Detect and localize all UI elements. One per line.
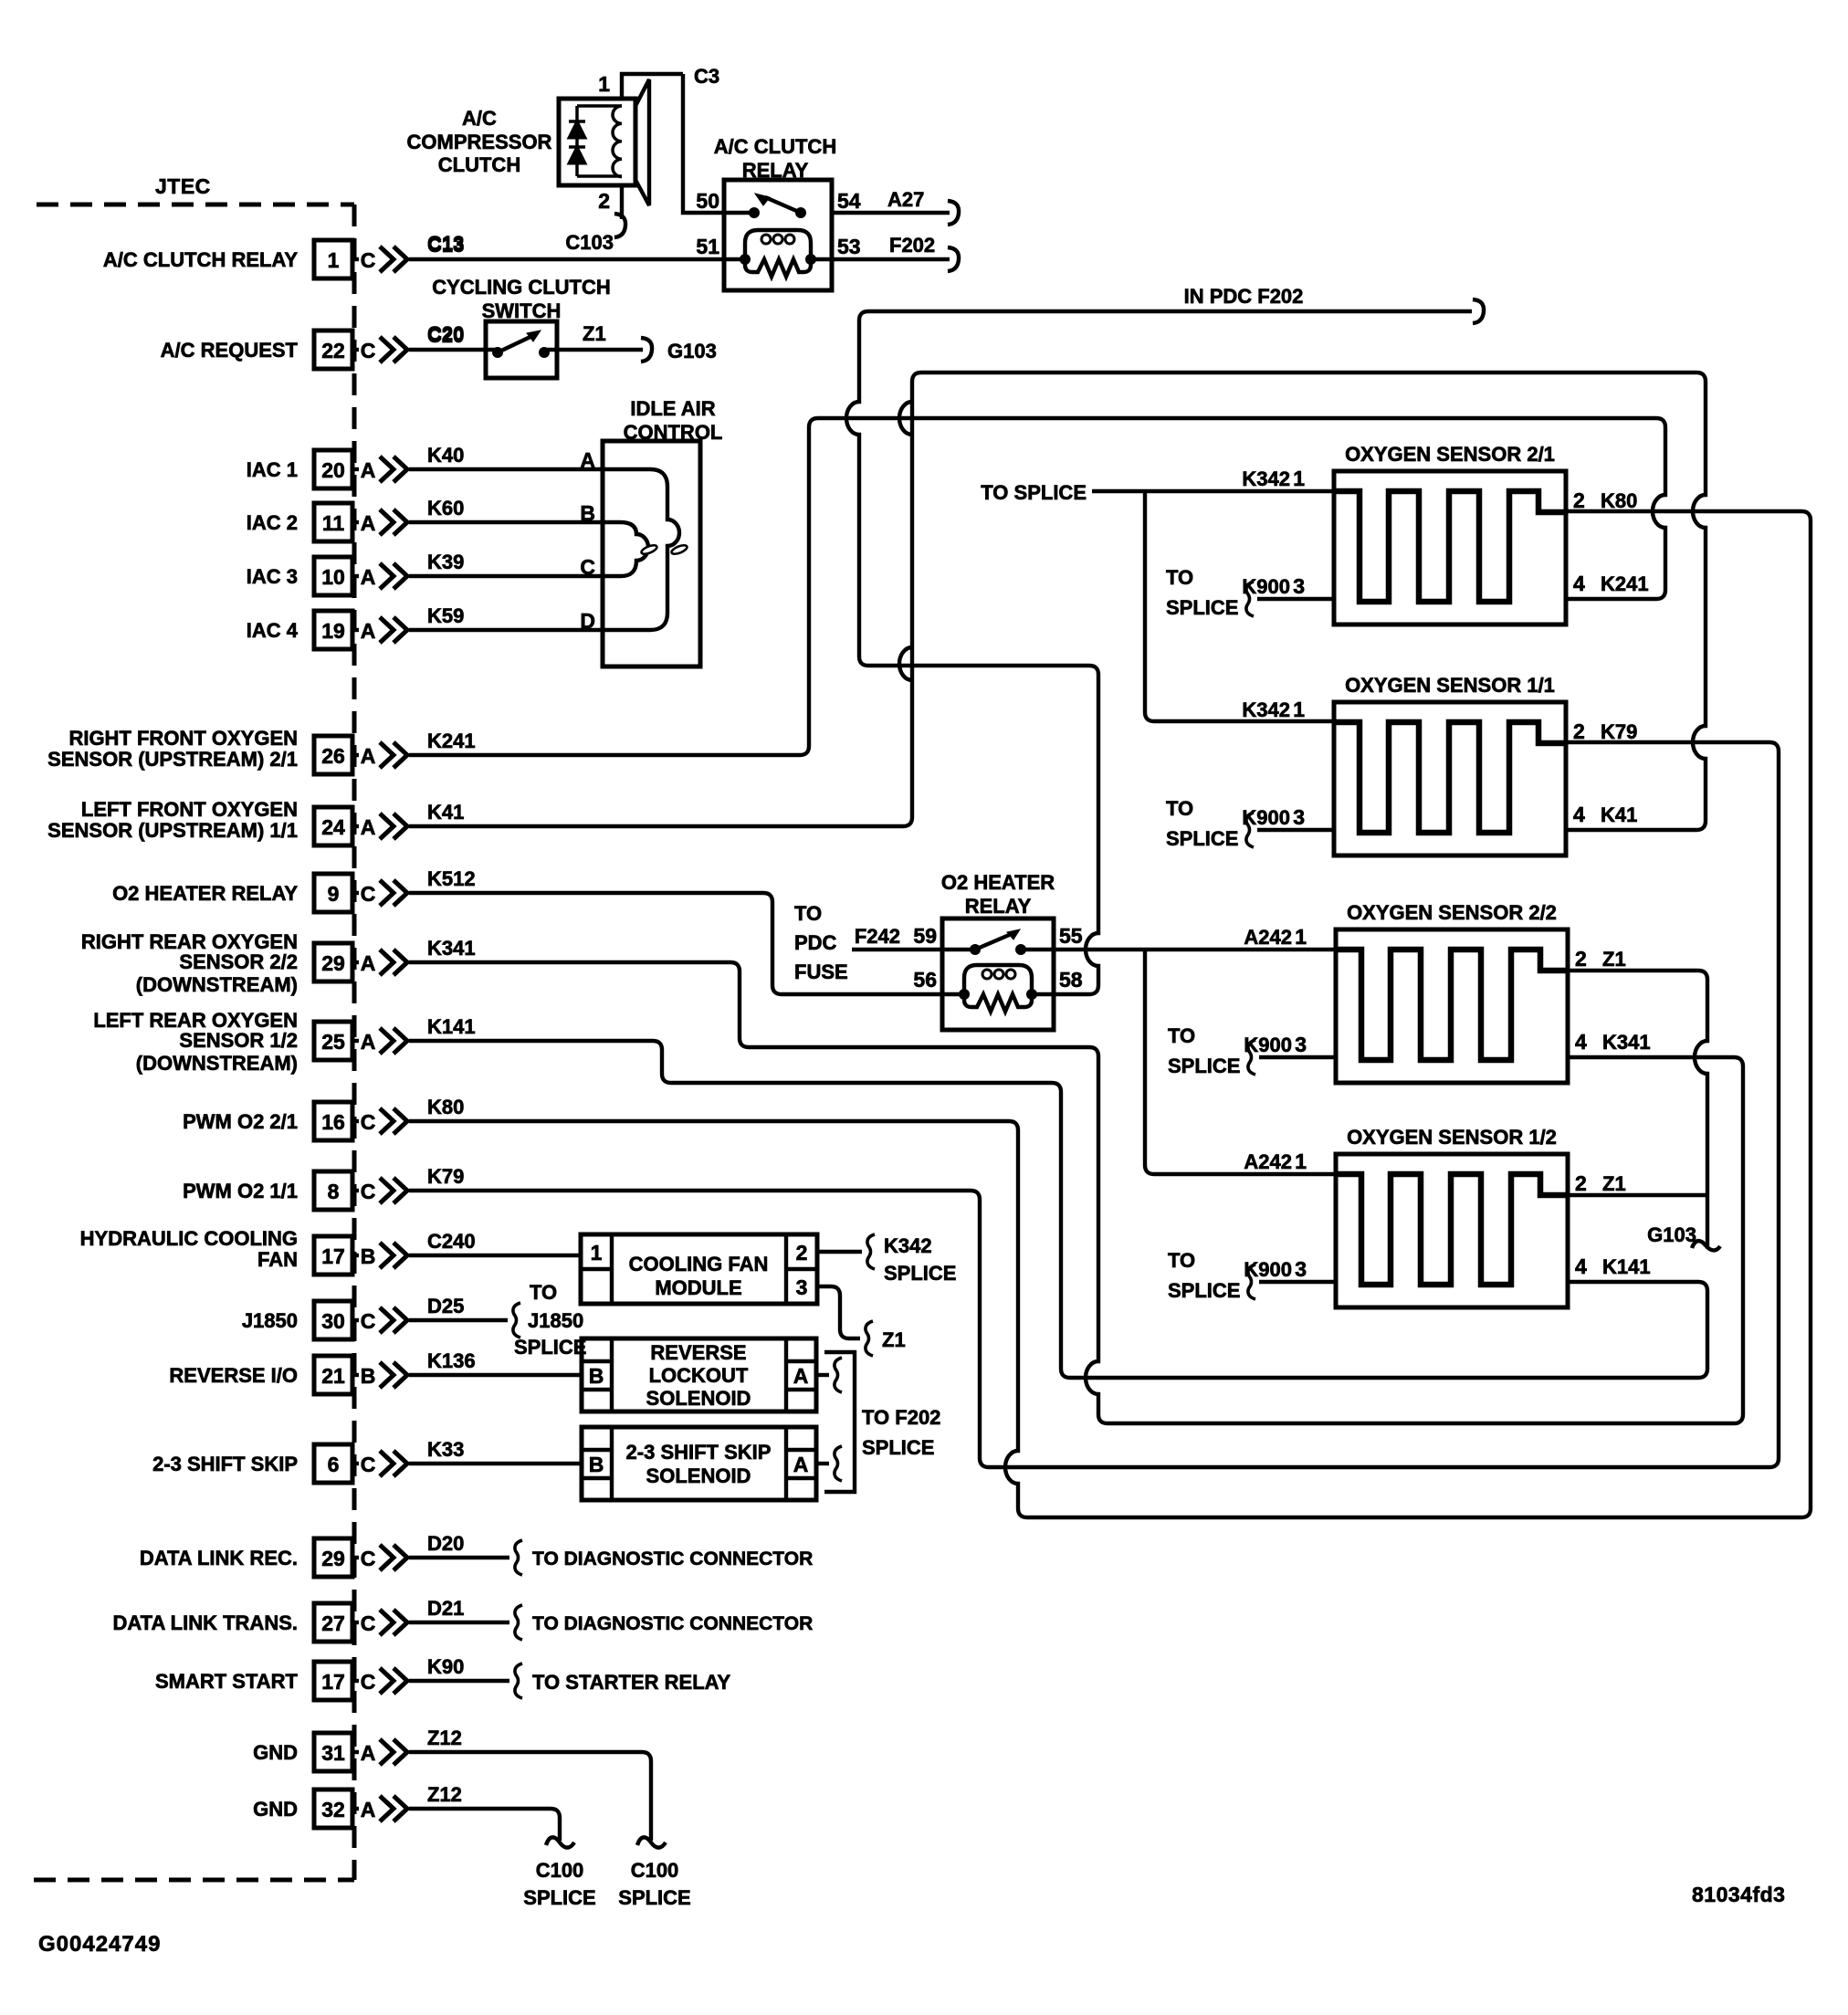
svg-text:O2 HEATER: O2 HEATER xyxy=(941,871,1055,894)
svg-text:24: 24 xyxy=(321,815,345,839)
svg-text:2: 2 xyxy=(1573,719,1585,743)
svg-text:PDC: PDC xyxy=(794,931,837,954)
svg-text:PWM O2 2/1: PWM O2 2/1 xyxy=(183,1110,298,1133)
svg-text:Z12: Z12 xyxy=(427,1726,462,1749)
svg-text:2: 2 xyxy=(598,189,610,213)
svg-text:PWM O2 1/1: PWM O2 1/1 xyxy=(183,1180,298,1202)
relay coil and resistor network xyxy=(745,230,811,259)
JTEC pin 6 box xyxy=(314,1444,352,1483)
wire C3 down to relay pin 50 xyxy=(683,74,754,213)
O2 heater relay box xyxy=(942,918,1054,1030)
O2 relay coil and resistor network xyxy=(964,965,1032,994)
svg-text:IAC 2: IAC 2 xyxy=(247,511,298,534)
svg-text:SPLICE: SPLICE xyxy=(514,1336,586,1359)
wire K79 net JTEC pin8 to oxygen sensor 1/1 pin 2 xyxy=(409,742,1779,1467)
svg-text:6: 6 xyxy=(328,1453,340,1476)
wire Z1 branch sensor 1/2 pin 2 xyxy=(1568,1193,1707,1197)
pin 27 letter C xyxy=(352,1621,359,1624)
pin 29 letter A xyxy=(352,960,359,964)
JTEC pin 26 box xyxy=(314,736,352,774)
pin 19 chevron xyxy=(380,617,394,643)
wire K141 net JTEC pin25 to oxygen sensor 1/2 pin 4 xyxy=(409,1041,1707,1378)
svg-text:C3: C3 xyxy=(694,65,719,88)
svg-text:K59: K59 xyxy=(427,604,464,627)
wire K136 JTEC pin21 to reverse solenoid B xyxy=(409,1373,582,1377)
svg-text:COMPRESSOR: COMPRESSOR xyxy=(407,131,552,153)
svg-text:20: 20 xyxy=(321,458,345,482)
svg-text:IAC 1: IAC 1 xyxy=(247,458,298,481)
wire K59 JTEC to IAC D xyxy=(409,628,603,632)
svg-text:K341: K341 xyxy=(427,937,476,960)
svg-text:1: 1 xyxy=(591,1241,603,1265)
wire K241 net JTEC pin26 to oxygen sensor 2/1 pin 4 xyxy=(409,418,1665,755)
wire C13 from JTEC pin1 to relay 51 xyxy=(409,257,745,261)
oxygen sensor 2/2 heater element xyxy=(1336,950,1568,1060)
svg-text:TO DIAGNOSTIC CONNECTOR: TO DIAGNOSTIC CONNECTOR xyxy=(532,1613,813,1634)
wire pin1 to C3 corner xyxy=(622,74,683,99)
pin 32 letter A xyxy=(352,1807,359,1810)
wire Z12 GND pin32 to C100 splice xyxy=(409,1809,560,1841)
pin 20 chevron xyxy=(380,457,394,482)
wire Z1 to G103 xyxy=(544,348,643,352)
compressor clutch coil xyxy=(577,104,622,108)
svg-text:1: 1 xyxy=(598,72,610,96)
svg-text:2: 2 xyxy=(1575,1171,1587,1195)
idle air control box xyxy=(603,441,700,666)
svg-text:K80: K80 xyxy=(427,1096,464,1118)
oxygen sensor 2/1 box xyxy=(1334,471,1566,624)
svg-text:Z1: Z1 xyxy=(1602,948,1626,971)
svg-text:59: 59 xyxy=(913,924,937,948)
oxygen sensor 2/1 heater element xyxy=(1334,491,1566,602)
svg-text:K79: K79 xyxy=(1601,720,1637,743)
wire K60 JTEC to IAC B xyxy=(409,520,603,524)
svg-text:27: 27 xyxy=(321,1611,345,1635)
svg-text:G103: G103 xyxy=(667,340,717,362)
svg-text:RELAY: RELAY xyxy=(965,895,1032,918)
svg-text:OXYGEN SENSOR 2/1: OXYGEN SENSOR 2/1 xyxy=(1345,443,1555,466)
pin 19 letter A xyxy=(352,628,359,632)
svg-text:A242: A242 xyxy=(1244,926,1292,949)
svg-text:OXYGEN SENSOR 2/2: OXYGEN SENSOR 2/2 xyxy=(1347,901,1557,924)
sensor 2/1 K900 to splice wire xyxy=(1257,597,1334,601)
svg-text:21: 21 xyxy=(321,1364,345,1388)
svg-text:K241: K241 xyxy=(1601,572,1649,595)
svg-text:29: 29 xyxy=(321,1547,345,1570)
IAC coil ellipse left xyxy=(640,543,657,555)
svg-text:IAC 3: IAC 3 xyxy=(247,565,298,588)
svg-text:29: 29 xyxy=(321,951,345,975)
svg-text:TO: TO xyxy=(1166,566,1193,589)
ground G103 curl xyxy=(1692,1241,1720,1250)
svg-text:A: A xyxy=(361,511,376,535)
svg-text:K33: K33 xyxy=(427,1438,464,1461)
svg-text:A/C: A/C xyxy=(462,107,497,130)
svg-text:K342: K342 xyxy=(884,1234,932,1257)
connector G103 curl xyxy=(641,338,652,362)
svg-text:C100: C100 xyxy=(536,1859,584,1882)
pin 11 letter A xyxy=(352,520,359,524)
pin 10 letter A xyxy=(352,574,359,578)
svg-text:GND: GND xyxy=(253,1741,298,1764)
wire cooling fan pin 2 to K342 splice xyxy=(817,1250,862,1254)
svg-text:C: C xyxy=(361,248,376,272)
svg-text:TO: TO xyxy=(1168,1024,1195,1047)
JTEC pin 29 box xyxy=(314,1538,352,1577)
svg-text:C: C xyxy=(361,1309,376,1333)
svg-text:IN PDC F202: IN PDC F202 xyxy=(1184,285,1304,308)
JTEC pin 32 box xyxy=(314,1789,352,1828)
oxygen sensor 1/1 heater element xyxy=(1334,722,1566,833)
svg-text:A27: A27 xyxy=(887,188,924,211)
svg-text:3: 3 xyxy=(1295,1033,1307,1056)
svg-text:1: 1 xyxy=(1295,1149,1307,1173)
svg-text:D20: D20 xyxy=(427,1532,464,1555)
JTEC pin 29 box xyxy=(314,943,352,981)
wire reverse solenoid A to F202 splice xyxy=(816,1373,829,1377)
svg-text:SOLENOID: SOLENOID xyxy=(646,1464,751,1487)
wire K342 branch down to sensor 1/1 pin 1 xyxy=(1145,491,1334,721)
svg-text:SPLICE: SPLICE xyxy=(523,1886,595,1909)
svg-text:17: 17 xyxy=(321,1670,345,1694)
svg-text:A/C CLUTCH: A/C CLUTCH xyxy=(714,135,836,158)
pin 25 letter A xyxy=(352,1039,359,1043)
pin 24 letter A xyxy=(352,824,359,828)
wire K80 net JTEC pin16 to oxygen sensor 2/1 pin 2 xyxy=(409,511,1811,1517)
pin 8 chevron xyxy=(380,1178,394,1203)
O2 relay switch contacts xyxy=(970,944,981,955)
svg-text:A: A xyxy=(361,1741,376,1765)
svg-text:SENSOR (UPSTREAM) 1/1: SENSOR (UPSTREAM) 1/1 xyxy=(47,819,298,842)
svg-text:C: C xyxy=(361,1547,376,1570)
svg-text:TO SPLICE: TO SPLICE xyxy=(981,481,1087,504)
svg-text:10: 10 xyxy=(321,565,345,589)
svg-text:C20: C20 xyxy=(427,324,464,347)
wire K90 to starter relay xyxy=(409,1679,509,1683)
pin 30 letter C xyxy=(352,1318,359,1322)
svg-text:B: B xyxy=(589,1364,604,1388)
svg-text:32: 32 xyxy=(321,1798,345,1821)
svg-text:TO: TO xyxy=(1168,1249,1195,1272)
svg-text:Z1: Z1 xyxy=(882,1328,906,1351)
svg-text:HYDRAULIC COOLING: HYDRAULIC COOLING xyxy=(80,1227,298,1250)
svg-text:G103: G103 xyxy=(1647,1223,1696,1246)
svg-text:SPLICE: SPLICE xyxy=(1168,1055,1240,1077)
svg-text:2: 2 xyxy=(1575,947,1587,971)
svg-text:C100: C100 xyxy=(631,1859,679,1882)
svg-text:19: 19 xyxy=(321,619,345,643)
pin 11 chevron xyxy=(380,509,394,535)
pin 20 letter A xyxy=(352,467,359,471)
pin 17 letter B xyxy=(352,1254,359,1257)
svg-text:GND: GND xyxy=(253,1798,298,1821)
svg-text:K40: K40 xyxy=(427,444,464,467)
wire K512 JTEC pin9 to relay pin 56 xyxy=(409,893,964,994)
svg-text:16: 16 xyxy=(321,1110,345,1134)
svg-text:56: 56 xyxy=(913,968,937,992)
pin 17 chevron xyxy=(380,1668,394,1694)
wire 2-3 solenoid A to F202 splice xyxy=(816,1462,829,1465)
svg-text:2-3 SHIFT SKIP: 2-3 SHIFT SKIP xyxy=(152,1453,298,1475)
pin 30 chevron xyxy=(380,1307,394,1333)
sensor 1/2 K900 to splice wire xyxy=(1259,1280,1336,1284)
JTEC pin 16 box xyxy=(314,1102,352,1140)
svg-text:SENSOR 2/2: SENSOR 2/2 xyxy=(179,950,298,973)
svg-text:3: 3 xyxy=(796,1275,808,1299)
wire A242 net O2 heater relay 55 to sensors 2/2 and 1/2 pin 1 xyxy=(1021,948,1336,951)
svg-text:A: A xyxy=(361,458,376,482)
pin 9 chevron xyxy=(380,880,394,906)
svg-text:54: 54 xyxy=(837,189,861,213)
connector F202 curl xyxy=(948,247,959,271)
switch blade xyxy=(498,335,534,352)
JTEC pin 20 box xyxy=(314,450,352,488)
wire K33 JTEC pin6 to 2-3 solenoid B xyxy=(409,1462,582,1465)
svg-text:1: 1 xyxy=(328,248,340,272)
A/C clutch relay box xyxy=(724,180,832,290)
svg-text:JTEC: JTEC xyxy=(155,174,211,198)
relay switch contacts xyxy=(749,207,760,218)
JTEC pin 8 box xyxy=(314,1171,352,1210)
pin 22 chevron xyxy=(380,337,394,362)
svg-text:DATA LINK REC.: DATA LINK REC. xyxy=(140,1547,298,1569)
JTEC pin 27 box xyxy=(314,1603,352,1642)
svg-text:A242: A242 xyxy=(1244,1150,1292,1173)
svg-text:C240: C240 xyxy=(427,1230,476,1253)
svg-text:81034fd3: 81034fd3 xyxy=(1692,1883,1785,1906)
svg-text:F202: F202 xyxy=(889,234,935,257)
svg-text:C: C xyxy=(361,882,376,906)
svg-text:SPLICE: SPLICE xyxy=(862,1436,934,1459)
svg-text:30: 30 xyxy=(321,1309,345,1333)
svg-text:OXYGEN SENSOR 1/2: OXYGEN SENSOR 1/2 xyxy=(1347,1126,1557,1149)
pin 1 letter C xyxy=(352,257,359,261)
svg-text:B: B xyxy=(361,1364,376,1388)
pin 6 letter C xyxy=(352,1462,359,1465)
svg-text:RIGHT FRONT OXYGEN: RIGHT FRONT OXYGEN xyxy=(68,727,298,750)
svg-text:B: B xyxy=(589,1453,604,1476)
IAC coil ellipse right xyxy=(670,543,688,555)
wire K342 net to splice and sensor 2/1 pin 1 xyxy=(1092,489,1334,493)
JTEC pin 9 box xyxy=(314,874,352,912)
svg-text:D21: D21 xyxy=(427,1597,464,1620)
svg-text:K136: K136 xyxy=(427,1349,476,1372)
oxygen sensor 1/2 box xyxy=(1336,1154,1568,1307)
svg-text:A/C CLUTCH RELAY: A/C CLUTCH RELAY xyxy=(103,248,298,271)
svg-text:A: A xyxy=(361,1030,376,1054)
svg-text:REVERSE I/O: REVERSE I/O xyxy=(169,1364,298,1387)
svg-text:G00424749: G00424749 xyxy=(38,1932,161,1957)
F202 splice bracket xyxy=(824,1352,855,1492)
svg-text:LOCKOUT: LOCKOUT xyxy=(649,1364,749,1387)
pin 17 letter C xyxy=(352,1679,359,1683)
pin 26 letter A xyxy=(352,753,359,757)
svg-text:K241: K241 xyxy=(427,729,476,752)
wire IN PDC F202 net xyxy=(846,311,1472,994)
pin 24 chevron xyxy=(380,813,394,839)
pin 6 chevron xyxy=(380,1451,394,1476)
wire C20 JTEC pin22 to switch xyxy=(409,348,498,352)
pin 31 letter A xyxy=(352,1750,359,1754)
svg-text:K90: K90 xyxy=(427,1655,464,1678)
wire K41 net JTEC pin24 to oxygen sensor 1/1 pin 4 xyxy=(409,373,1706,830)
svg-text:K41: K41 xyxy=(427,801,464,824)
svg-text:3: 3 xyxy=(1295,1257,1307,1281)
svg-text:2-3 SHIFT SKIP: 2-3 SHIFT SKIP xyxy=(626,1441,772,1464)
JTEC pin 30 box xyxy=(314,1301,352,1339)
2-3 shift skip solenoid box xyxy=(582,1427,816,1500)
pin 26 chevron xyxy=(380,742,394,768)
pin 21 letter B xyxy=(352,1373,359,1377)
svg-text:IAC 4: IAC 4 xyxy=(247,619,299,642)
svg-text:53: 53 xyxy=(837,235,861,258)
wire K39 JTEC to IAC C xyxy=(409,574,603,578)
svg-text:K342: K342 xyxy=(1242,467,1290,490)
svg-text:C: C xyxy=(361,1453,376,1476)
svg-text:C: C xyxy=(361,1670,376,1694)
svg-text:K80: K80 xyxy=(1601,489,1637,512)
svg-text:A/C REQUEST: A/C REQUEST xyxy=(161,339,299,362)
svg-text:Z12: Z12 xyxy=(427,1783,462,1806)
svg-text:TO STARTER RELAY: TO STARTER RELAY xyxy=(532,1671,731,1694)
svg-text:2: 2 xyxy=(1573,488,1585,512)
svg-text:31: 31 xyxy=(321,1741,345,1765)
reverse lockout solenoid box xyxy=(582,1338,816,1412)
wire C240 JTEC pin17 to cooling fan pin 1 xyxy=(409,1254,581,1257)
svg-text:22: 22 xyxy=(321,339,345,362)
svg-text:SMART START: SMART START xyxy=(155,1670,299,1693)
JTEC boundary dashed bottom xyxy=(34,1878,354,1883)
svg-text:3: 3 xyxy=(1293,805,1305,829)
svg-text:TO: TO xyxy=(1166,797,1193,820)
JTEC pin 24 box xyxy=(314,807,352,845)
svg-text:K341: K341 xyxy=(1602,1031,1651,1054)
svg-text:O2 HEATER RELAY: O2 HEATER RELAY xyxy=(112,882,298,905)
svg-text:CYCLING CLUTCH: CYCLING CLUTCH xyxy=(432,276,611,299)
wire F242 to relay pin 59 xyxy=(852,948,975,951)
svg-text:C: C xyxy=(361,1180,376,1203)
svg-text:TO: TO xyxy=(530,1281,557,1304)
connector IN PDC F202 curl xyxy=(1473,299,1484,323)
oxygen sensor 1/2 heater element xyxy=(1336,1174,1568,1285)
JTEC pin 11 box xyxy=(314,503,352,541)
svg-text:58: 58 xyxy=(1059,968,1083,992)
pin 16 letter C xyxy=(352,1119,359,1123)
O2 relay switch blade xyxy=(975,933,1013,950)
svg-text:A: A xyxy=(361,951,376,975)
compressor clutch horn xyxy=(635,79,649,205)
svg-text:MODULE: MODULE xyxy=(655,1276,741,1299)
svg-text:LEFT FRONT OXYGEN: LEFT FRONT OXYGEN xyxy=(81,798,298,821)
svg-text:3: 3 xyxy=(1293,574,1305,598)
svg-text:SPLICE: SPLICE xyxy=(618,1886,690,1909)
JTEC pin 17 box xyxy=(314,1236,352,1275)
svg-text:K141: K141 xyxy=(427,1015,476,1038)
svg-text:J1850: J1850 xyxy=(242,1309,298,1332)
JTEC pin 25 box xyxy=(314,1022,352,1060)
svg-text:SENSOR 1/2: SENSOR 1/2 xyxy=(179,1029,298,1052)
wire Z12 GND pin31 to C100 splice xyxy=(409,1752,651,1841)
svg-text:SPLICE: SPLICE xyxy=(1166,827,1238,850)
svg-text:4: 4 xyxy=(1573,803,1585,826)
svg-text:REVERSE: REVERSE xyxy=(650,1341,746,1364)
svg-text:17: 17 xyxy=(321,1244,345,1268)
JTEC pin 17 box xyxy=(314,1662,352,1700)
svg-text:B: B xyxy=(361,1244,376,1268)
wire D21 to diagnostic connector xyxy=(409,1621,509,1624)
pin 31 chevron xyxy=(380,1739,394,1765)
svg-text:1: 1 xyxy=(1293,698,1305,721)
wire D25 to J1850 splice xyxy=(409,1318,508,1322)
IAC winding B-C xyxy=(603,522,648,576)
wire Z1 net oxygen sensors pin 2 to ground G103 xyxy=(1568,971,1707,1247)
wire relay 54 to A27 xyxy=(832,211,950,215)
wire A242 branch down to sensor 1/2 pin 1 xyxy=(1145,950,1336,1174)
svg-text:4: 4 xyxy=(1575,1030,1587,1054)
svg-text:2: 2 xyxy=(796,1241,808,1265)
svg-text:A: A xyxy=(361,1798,376,1821)
svg-text:COOLING FAN: COOLING FAN xyxy=(629,1253,769,1275)
oxygen sensor 2/2 box xyxy=(1336,929,1568,1083)
svg-text:SWITCH: SWITCH xyxy=(482,299,562,322)
connector A27 curl xyxy=(948,201,959,225)
pin 8 letter C xyxy=(352,1189,359,1192)
svg-text:9: 9 xyxy=(328,882,340,906)
svg-text:A: A xyxy=(793,1364,809,1388)
pin 25 chevron xyxy=(380,1028,394,1054)
wire pin2 down to connector C103 xyxy=(620,185,624,219)
pin 10 chevron xyxy=(380,563,394,589)
svg-text:SPLICE: SPLICE xyxy=(1168,1279,1240,1302)
svg-text:TO: TO xyxy=(794,902,822,925)
JTEC pin 22 box xyxy=(314,331,352,369)
wire D20 to diagnostic connector xyxy=(409,1556,509,1559)
pin 27 chevron xyxy=(380,1610,394,1635)
compressor clutch diodes xyxy=(575,106,579,176)
svg-text:A: A xyxy=(361,619,376,643)
svg-text:OXYGEN SENSOR 1/1: OXYGEN SENSOR 1/1 xyxy=(1345,674,1555,697)
svg-text:A: A xyxy=(793,1453,809,1476)
svg-text:1: 1 xyxy=(1295,925,1307,949)
svg-text:K512: K512 xyxy=(427,867,476,890)
JTEC pin 21 box xyxy=(314,1356,352,1394)
svg-text:K342: K342 xyxy=(1242,698,1290,721)
svg-text:FUSE: FUSE xyxy=(794,960,848,983)
svg-text:SPLICE: SPLICE xyxy=(884,1262,956,1285)
svg-text:C103: C103 xyxy=(565,231,614,254)
svg-text:C: C xyxy=(361,1110,376,1134)
svg-text:C: C xyxy=(361,1611,376,1635)
pin 21 chevron xyxy=(380,1362,394,1388)
switch contacts xyxy=(492,347,503,358)
cycling clutch switch box xyxy=(486,321,557,378)
JTEC boundary dashed right edge xyxy=(352,205,357,1880)
JTEC pin 19 box xyxy=(314,611,352,649)
svg-text:SENSOR (UPSTREAM) 2/1: SENSOR (UPSTREAM) 2/1 xyxy=(47,748,298,771)
svg-text:K60: K60 xyxy=(427,497,464,519)
svg-text:50: 50 xyxy=(696,189,719,213)
svg-text:(DOWNSTREAM): (DOWNSTREAM) xyxy=(136,1052,298,1075)
svg-text:K79: K79 xyxy=(427,1165,464,1188)
svg-text:(DOWNSTREAM): (DOWNSTREAM) xyxy=(136,973,298,996)
svg-text:CLUTCH: CLUTCH xyxy=(438,153,520,176)
svg-text:4: 4 xyxy=(1575,1254,1587,1278)
svg-text:26: 26 xyxy=(321,744,345,768)
svg-text:D25: D25 xyxy=(427,1295,464,1317)
svg-text:SOLENOID: SOLENOID xyxy=(646,1387,751,1410)
svg-text:K141: K141 xyxy=(1602,1255,1651,1278)
wire cooling fan pin 3 to Z1 xyxy=(817,1286,860,1338)
